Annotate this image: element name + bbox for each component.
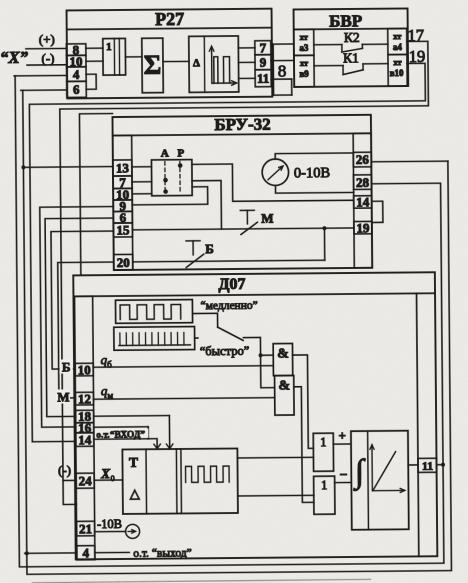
svg-text:24: 24	[79, 473, 93, 488]
svg-text:в9: в9	[299, 69, 309, 79]
svg-text:−: −	[340, 468, 348, 483]
svg-text:Б: Б	[62, 359, 71, 374]
svg-text:12: 12	[78, 391, 91, 406]
svg-text:11: 11	[257, 71, 269, 86]
svg-text:14: 14	[78, 432, 92, 447]
svg-text:(+): (+)	[39, 32, 55, 47]
svg-text:К1: К1	[343, 50, 359, 65]
svg-text:М: М	[57, 389, 69, 404]
svg-text:28: 28	[356, 175, 370, 190]
svg-text:а4: а4	[393, 42, 403, 52]
svg-text:б: б	[107, 360, 112, 370]
svg-text:20: 20	[117, 255, 130, 270]
svg-text:14: 14	[356, 194, 370, 209]
svg-text:м: м	[107, 391, 113, 401]
svg-text:Б: Б	[205, 241, 214, 256]
svg-text:хт: хт	[393, 31, 402, 41]
svg-text:Σ: Σ	[144, 50, 162, 80]
svg-text:8: 8	[278, 62, 287, 81]
svg-text:△: △	[130, 486, 140, 501]
svg-text:6: 6	[73, 82, 80, 97]
svg-text:хт: хт	[393, 57, 402, 67]
svg-text:26: 26	[356, 152, 370, 167]
svg-text:хт: хт	[300, 32, 309, 42]
svg-text:Р27: Р27	[155, 9, 184, 29]
svg-text:19: 19	[356, 220, 370, 235]
svg-text:11: 11	[422, 459, 433, 473]
svg-text:0-10В: 0-10В	[294, 165, 330, 181]
svg-text:13: 13	[116, 160, 130, 175]
svg-text:Р: Р	[177, 147, 184, 159]
svg-text:21: 21	[79, 521, 92, 536]
svg-text:0: 0	[111, 474, 115, 483]
svg-text:хт: хт	[300, 58, 309, 68]
svg-text:“X”: “X”	[0, 48, 29, 67]
svg-text:-10В: -10В	[97, 517, 122, 531]
svg-text:4: 4	[82, 545, 89, 560]
svg-text:1: 1	[321, 478, 327, 492]
svg-text:Δ: Δ	[193, 57, 200, 69]
svg-text:&: &	[278, 379, 290, 394]
svg-text:X: X	[100, 466, 111, 481]
svg-text:М: М	[261, 211, 273, 226]
svg-text:(-): (-)	[41, 51, 54, 66]
svg-text:+: +	[338, 428, 346, 443]
svg-text:1: 1	[106, 41, 112, 53]
svg-text:о.т. “выход”: о.т. “выход”	[133, 547, 192, 560]
svg-text:А: А	[161, 148, 169, 160]
svg-text:15: 15	[116, 222, 130, 237]
svg-text:9: 9	[260, 55, 267, 70]
svg-text:БРУ-32: БРУ-32	[214, 115, 271, 134]
svg-text:“быстро”: “быстро”	[200, 344, 250, 358]
svg-text:в10: в10	[390, 68, 404, 78]
svg-text:4: 4	[73, 67, 80, 82]
svg-text:Т: Т	[129, 455, 138, 470]
svg-text:1: 1	[320, 435, 326, 449]
svg-text:(-): (-)	[58, 462, 71, 477]
svg-text:Д07: Д07	[218, 276, 245, 293]
svg-text:а3: а3	[299, 43, 309, 53]
svg-text:&: &	[277, 347, 289, 362]
svg-text:7: 7	[260, 40, 267, 55]
svg-text:10: 10	[78, 362, 91, 377]
svg-text:БВР: БВР	[329, 11, 362, 30]
svg-text:о.т.“ВХОД”: о.т.“ВХОД”	[96, 429, 145, 440]
svg-text:К2: К2	[344, 30, 360, 45]
svg-text:“медленно”: “медленно”	[200, 300, 257, 312]
